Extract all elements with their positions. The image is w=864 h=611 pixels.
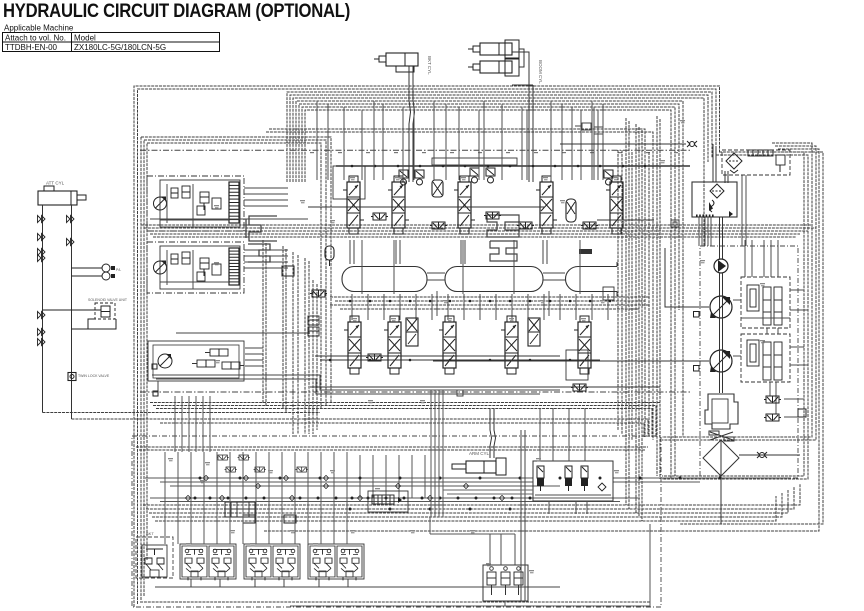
wire corridor left verticals [263, 240, 317, 434]
wire arm hoses [490, 408, 496, 458]
pilot valve pv399 [399, 170, 408, 185]
svg-text:TWIN LOCK VALVE: TWIN LOCK VALVE [78, 374, 110, 378]
wire dark supply line [336, 165, 690, 168]
wire filter down links [742, 175, 746, 246]
svg-text:P/L: P/L [116, 268, 121, 272]
solenoid valve unit left [43, 298, 128, 329]
svg-text:ATT CYL: ATT CYL [46, 181, 65, 186]
solenoid valve sv255 [254, 467, 266, 472]
lever valve BKT [136, 531, 173, 578]
svg-text:BOOM CYL: BOOM CYL [538, 60, 543, 84]
pilot valve pv415 [415, 170, 424, 185]
solenoid valve sv297 [296, 467, 308, 472]
valve spool V4 [536, 176, 557, 234]
pilot pump [714, 259, 728, 273]
wire pedal stems [290, 524, 650, 606]
valve spool V2 [388, 176, 409, 234]
wire mid bus y225 [141, 225, 816, 237]
pilot valve small h [484, 212, 501, 219]
wire outer ring top [134, 86, 720, 607]
wire regulator right stubs [733, 290, 808, 365]
wire ring second [141, 129, 653, 600]
junction dots rows [194, 477, 722, 511]
cylinder BKT CYL [374, 53, 432, 75]
oil cooler [692, 182, 737, 217]
relief valve r2 [764, 414, 781, 421]
wire under clusters [155, 586, 560, 588]
wire right edge bundle [264, 143, 823, 531]
pilot valve small d [366, 354, 383, 361]
pilot valve cluster 2 [244, 544, 300, 587]
relief valve r1 [764, 396, 781, 403]
check valve left a258 [38, 255, 46, 262]
wire rows below racetracks [330, 297, 650, 309]
wire dark rows y356 [315, 356, 600, 361]
wire dark line y207 [308, 206, 545, 208]
wire cooler stubs [699, 217, 711, 246]
svg-text:BKT: BKT [146, 531, 154, 536]
cylinder ARM CYL [452, 451, 506, 475]
cooler hatch row [696, 215, 714, 218]
wire regulator links [745, 240, 804, 417]
remote control valve lower [147, 242, 244, 293]
wire pilot box verts [165, 452, 425, 544]
label specks [168, 120, 765, 573]
valve spool V7 [384, 316, 405, 374]
svg-text:ARM CYL: ARM CYL [469, 451, 490, 456]
pilot valve small c [581, 222, 598, 229]
valve spool V1 [343, 176, 364, 234]
wire pedal dark verts [521, 430, 525, 601]
junction blocks top [575, 123, 603, 134]
valve capsule 2 [566, 199, 576, 222]
quick coupler [72, 264, 122, 280]
valve small xs2 [528, 318, 540, 346]
solenoid valve block [533, 461, 613, 501]
valve housing v10 [566, 350, 588, 380]
valve spool V9 [501, 316, 522, 374]
wire bottom rows y505 [143, 484, 800, 521]
small relief mid [282, 266, 294, 276]
pilot valve pv470 [470, 168, 479, 183]
svg-text:Attach to vol. No.: Attach to vol. No. [5, 34, 66, 43]
cylinder BOOM CYL 2 [468, 59, 543, 84]
wire verts above valve row [317, 101, 603, 180]
travel pilot valve box [148, 333, 310, 396]
wire pilot box h-lines [145, 478, 790, 502]
connector C1 [246, 216, 277, 241]
solenoid valve sv239 [238, 455, 250, 460]
svg-text:SOLENOID VALVE UNIT: SOLENOID VALVE UNIT [88, 298, 128, 302]
wire cooler vert [713, 144, 716, 182]
wire BKT hoses [409, 66, 415, 182]
wire solenoid stems [540, 408, 587, 514]
engine [705, 394, 738, 429]
wire strainer link [739, 454, 800, 456]
small valve mid1 [308, 316, 319, 336]
wire cooler link [560, 143, 686, 145]
wire bundle left-valve down [175, 396, 210, 452]
wire bus ticks [310, 152, 678, 153]
connector H1 [487, 215, 519, 237]
shuttle manifold [225, 502, 255, 517]
washer unit [368, 491, 408, 512]
connector H2 [490, 241, 517, 261]
suction strainer [703, 440, 739, 476]
main pump 1 [710, 296, 732, 318]
pilot valve cluster 1 [180, 544, 236, 587]
pump group border [700, 246, 798, 478]
wire pump1 inlet [665, 248, 709, 317]
solenoid valve sv226 [225, 467, 237, 472]
pilot valve cluster 3 [308, 544, 364, 587]
wire remote box outputs [244, 188, 288, 366]
cooling fan [709, 431, 734, 441]
small valve mid2 [310, 290, 327, 297]
relief pair bottom [243, 515, 296, 523]
valve small xs1 [406, 318, 418, 346]
check ball top [687, 141, 697, 147]
valve spool V10 [574, 316, 595, 374]
pilot valve small e [571, 384, 588, 391]
shuttle diamonds [185, 475, 504, 500]
wire BOOM hoses [512, 49, 533, 182]
regulator 1 [741, 277, 790, 328]
svg-text:BKT CYL: BKT CYL [427, 56, 432, 75]
spool body racetrack 2 [445, 267, 543, 292]
valve spool V5 [606, 176, 627, 234]
spool body racetrack 3 [566, 249, 618, 300]
check valve left b219 [67, 216, 75, 223]
connector C2 [248, 244, 270, 262]
pedal valve box [483, 565, 528, 601]
check valve left a252 [38, 249, 46, 256]
main pump 2 [710, 350, 732, 372]
wire ATT lines [43, 205, 72, 419]
pilot filter assembly [722, 150, 790, 175]
svg-text:ZX180LC-5G/180LCN-5G: ZX180LC-5G/180LCN-5G [74, 43, 166, 52]
pilot valve pv486 [486, 168, 495, 183]
check valve left c342 [38, 339, 46, 346]
check ball right [757, 452, 767, 458]
wire boundary dashdot [140, 149, 690, 151]
valve spool V3 [454, 176, 475, 234]
svg-text:Model: Model [74, 34, 96, 43]
wire strainer to rings [720, 476, 722, 524]
check valve left a219 [38, 216, 46, 223]
wire bus y402-419 [43, 403, 661, 438]
valve spool V6 [344, 316, 365, 374]
svg-text:TTDBH-EN-00: TTDBH-EN-00 [5, 43, 58, 52]
manifold thin box [432, 158, 517, 165]
spool body racetrack 1 [342, 267, 427, 292]
valve capsule [432, 180, 443, 197]
valve housing v1 [333, 166, 365, 199]
wire dark line y220 [597, 219, 654, 221]
cylinder BOOM CYL 1 [468, 40, 519, 58]
wire verts below racetrack [352, 294, 608, 320]
cylinder ATT CYL [38, 181, 86, 206]
check valve left c315 [38, 312, 46, 319]
table applicable machine [3, 24, 220, 53]
small sq right [798, 409, 806, 417]
check valve left b242 [67, 239, 75, 246]
wire bundle x431 [430, 390, 443, 534]
wire pump2 inlet [433, 361, 709, 371]
valve spool V8 [439, 316, 460, 374]
check valve left c332 [38, 329, 46, 336]
pilot valve small i [517, 222, 534, 229]
wire dark line y219 [150, 218, 308, 220]
pump shaft [720, 273, 723, 393]
regulator 2 [741, 334, 790, 382]
wire dark line y387 [310, 386, 660, 388]
solenoid valve sv218 [217, 455, 229, 460]
wire stepped routing y375 [152, 375, 560, 394]
junction dots row mid [349, 300, 612, 303]
pilot valve pv604 [604, 170, 613, 185]
svg-text:Applicable Machine: Applicable Machine [4, 24, 74, 33]
boundary port box [457, 390, 463, 396]
connector pair on bus [671, 220, 679, 227]
wire corridor right verticals [618, 116, 660, 521]
twin lock valve [68, 373, 110, 381]
wire spool-racetrack stubs [350, 240, 547, 264]
pilot valve box border [132, 436, 661, 607]
pilot valve small b [430, 222, 447, 229]
wire pilot pump supply [720, 217, 723, 259]
remote control valve upper [147, 176, 244, 231]
wire bundle mid-bottom h [443, 490, 533, 494]
wire filter-cooler link [725, 171, 728, 183]
wire racetrack links [362, 240, 580, 316]
pilot valve small a [371, 213, 388, 220]
check valve left a237 [38, 234, 46, 241]
accumulator [325, 246, 334, 266]
svg-text:HYDRAULIC CIRCUIT DIAGRAM (OPT: HYDRAULIC CIRCUIT DIAGRAM (OPTIONAL) [3, 0, 350, 22]
wire box inner bottom [140, 601, 650, 603]
wire block bottom boundary [140, 391, 690, 393]
